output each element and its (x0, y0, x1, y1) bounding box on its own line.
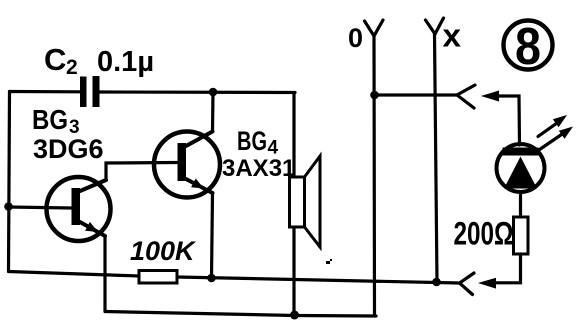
LED light arrow upper (538, 115, 567, 137)
label BG4 (237, 126, 279, 159)
wire plug top to LED (495, 96, 520, 145)
LED D (497, 144, 545, 192)
wire 0 rail (372, 36, 376, 316)
svg-text:0: 0 (348, 23, 363, 53)
connector jack bottom (460, 273, 475, 295)
svg-text:BG: BG (32, 104, 68, 135)
wire speaker vertical (292, 93, 295, 315)
label C2 (44, 42, 78, 79)
wire bottom (105, 312, 376, 317)
wire X rail (435, 34, 438, 282)
label BG3 (32, 104, 80, 138)
wire left rail (9, 92, 10, 272)
wire resistor line left (9, 272, 140, 277)
wire resistor line right (177, 277, 460, 283)
svg-text:100K: 100K (130, 236, 197, 266)
svg-text:200Ω: 200Ω (454, 216, 514, 252)
svg-text:C: C (44, 42, 66, 77)
svg-text:8: 8 (515, 18, 541, 76)
wire to top jack (375, 93, 458, 96)
transistor BG4 (154, 132, 220, 198)
connector plug bottom arrow (478, 278, 496, 289)
circled 8 (504, 18, 553, 76)
speaker LS (290, 156, 321, 247)
terminal X fork (426, 18, 444, 34)
svg-text:BG: BG (237, 126, 267, 156)
wire resistor to bottom plug (494, 254, 521, 283)
wire BG4 collector up (211, 92, 215, 132)
resistor 100K (139, 271, 177, 284)
svg-text:2: 2 (66, 56, 78, 79)
terminal 0 fork (365, 20, 384, 36)
connector jack top (457, 85, 475, 108)
wire BG3 collector to BG4 base (106, 163, 177, 181)
node dot on top wire at BG4 collector (209, 88, 218, 97)
node dot 0 rail (370, 91, 379, 100)
wire BG4 emitter down (212, 193, 213, 278)
LED light arrow lower (533, 127, 573, 155)
capacitor C2 (80, 76, 100, 107)
svg-text:x: x (443, 18, 462, 54)
wire top segment right of capacitor (100, 90, 296, 94)
svg-text:0.1µ: 0.1µ (97, 46, 154, 78)
svg-text:3AX31: 3AX31 (222, 155, 295, 182)
connector plug top arrow (481, 91, 499, 102)
scan speck (326, 259, 332, 264)
resistor 200 ohm (514, 217, 529, 254)
wire BG3 base (9, 207, 72, 208)
node dot X rail on resistor line (432, 278, 441, 287)
node dot BG4 emitter on resistor line (207, 274, 216, 283)
wire top-left segment (10, 90, 81, 94)
wire LED to resistor (519, 192, 522, 217)
node dot speaker bottom (290, 311, 299, 320)
wire BG3 emitter down (103, 236, 106, 312)
transistor BG3 (47, 177, 111, 241)
svg-text:3DG6: 3DG6 (33, 134, 104, 164)
node dot left rail / BG3 base (4, 202, 13, 211)
